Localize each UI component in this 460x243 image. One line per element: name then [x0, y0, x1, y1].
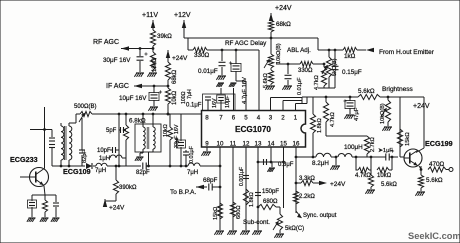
svg-text:10kΩ(B): 10kΩ(B) — [276, 43, 282, 64]
svg-text:500Ω(B): 500Ω(B) — [74, 104, 97, 110]
svg-text:ECG199: ECG199 — [425, 139, 453, 148]
svg-text:68pF: 68pF — [203, 177, 218, 184]
svg-text:IF AGC: IF AGC — [106, 83, 129, 90]
svg-text:7μH: 7μH — [95, 168, 106, 174]
svg-text:4: 4 — [257, 115, 261, 122]
svg-text:30μF 16V: 30μF 16V — [103, 57, 131, 64]
svg-text:2.2kΩ: 2.2kΩ — [299, 194, 315, 200]
svg-text:+24V: +24V — [172, 55, 188, 62]
svg-text:1: 1 — [294, 115, 298, 122]
svg-text:330Ω: 330Ω — [298, 68, 313, 74]
svg-text:To B.P.A.: To B.P.A. — [170, 189, 196, 196]
svg-text:9: 9 — [205, 141, 209, 148]
svg-text:3: 3 — [269, 115, 273, 122]
svg-text:+11V: +11V — [142, 12, 158, 19]
svg-text:SeekIC.com: SeekIC.com — [408, 231, 460, 241]
svg-text:100μH: 100μH — [344, 144, 363, 151]
svg-text:+24V: +24V — [330, 181, 346, 188]
svg-text:470Ω: 470Ω — [429, 161, 445, 168]
svg-text:1μH: 1μH — [99, 156, 110, 162]
svg-text:7μH: 7μH — [187, 170, 198, 176]
svg-text:330Ω: 330Ω — [194, 52, 210, 59]
svg-text:82pF: 82pF — [136, 170, 150, 176]
svg-text:5.6kΩ: 5.6kΩ — [426, 177, 443, 184]
svg-text:8: 8 — [205, 115, 209, 122]
svg-text:+24V: +24V — [413, 103, 430, 110]
svg-text:2: 2 — [281, 115, 285, 122]
svg-text:390kΩ: 390kΩ — [119, 185, 137, 191]
svg-text:15kΩ: 15kΩ — [405, 132, 411, 146]
svg-text:5pF: 5pF — [106, 128, 117, 134]
svg-text:11: 11 — [230, 141, 237, 148]
svg-text:150pF: 150pF — [262, 189, 279, 195]
svg-text:Sub-cont.: Sub-cont. — [243, 219, 270, 226]
svg-text:Brightness: Brightness — [382, 86, 413, 93]
svg-text:7μH: 7μH — [187, 89, 193, 99]
svg-text:100Ω: 100Ω — [181, 91, 187, 104]
svg-text:4.7kΩ: 4.7kΩ — [330, 112, 336, 127]
svg-text:10kΩ: 10kΩ — [377, 173, 392, 179]
svg-text:33μF 16V: 33μF 16V — [174, 124, 180, 148]
svg-text:1.8kΩ: 1.8kΩ — [317, 118, 323, 133]
svg-text:10pF: 10pF — [97, 148, 111, 154]
svg-text:0.001μF: 0.001μF — [239, 167, 245, 186]
svg-text:ECG109: ECG109 — [63, 167, 91, 176]
svg-text:+24V: +24V — [275, 5, 292, 12]
svg-text:0.01μF: 0.01μF — [297, 77, 303, 95]
svg-text:5kΩ(C): 5kΩ(C) — [285, 226, 304, 232]
svg-text:1.8kΩ: 1.8kΩ — [249, 192, 255, 207]
svg-text:68kΩ: 68kΩ — [276, 21, 291, 28]
svg-text:4.7kΩ: 4.7kΩ — [355, 173, 371, 179]
svg-text:RF AGC: RF AGC — [93, 39, 119, 46]
svg-text:ECG233: ECG233 — [10, 155, 38, 164]
svg-text:10kΩ: 10kΩ — [172, 90, 178, 105]
svg-text:8.2μH: 8.2μH — [312, 160, 329, 167]
svg-text:680Ω: 680Ω — [263, 199, 278, 205]
svg-text:6: 6 — [232, 115, 236, 122]
svg-text:0.01μF: 0.01μF — [198, 68, 218, 75]
svg-text:RF AGC Delay: RF AGC Delay — [225, 40, 267, 47]
svg-text:82pF: 82pF — [82, 150, 88, 163]
svg-text:10: 10 — [217, 141, 224, 148]
svg-text:0.1μF: 0.1μF — [186, 103, 202, 109]
svg-text:Sync. output: Sync. output — [303, 213, 337, 219]
svg-text:3.3kΩ: 3.3kΩ — [299, 176, 315, 182]
svg-text:680Ω: 680Ω — [236, 205, 242, 219]
svg-text:14: 14 — [268, 141, 275, 148]
svg-text:15: 15 — [280, 141, 287, 148]
svg-text:13: 13 — [255, 141, 262, 148]
svg-text:10kΩ(B): 10kΩ(B) — [380, 103, 386, 124]
svg-text:1kΩ: 1kΩ — [344, 53, 356, 60]
svg-text:12: 12 — [243, 141, 250, 148]
svg-text:39kΩ: 39kΩ — [157, 33, 172, 40]
svg-text:68kΩ: 68kΩ — [172, 69, 178, 84]
svg-text:15kΩ: 15kΩ — [213, 207, 219, 220]
svg-text:ECG1070: ECG1070 — [235, 125, 271, 134]
svg-text:+24V: +24V — [109, 205, 125, 212]
svg-text:16: 16 — [293, 141, 300, 148]
svg-text:10kΩ: 10kΩ — [163, 124, 169, 137]
svg-text:5.6kΩ: 5.6kΩ — [358, 88, 375, 95]
svg-text:From H.out Emitter: From H.out Emitter — [379, 49, 435, 56]
svg-text:7: 7 — [219, 115, 223, 122]
svg-text:18kΩ: 18kΩ — [152, 57, 158, 72]
svg-text:5: 5 — [244, 115, 248, 122]
svg-text:10μF 16V: 10μF 16V — [119, 95, 147, 102]
svg-text:47μF: 47μF — [354, 107, 360, 121]
svg-text:ABL Adj.: ABL Adj. — [287, 47, 311, 54]
svg-text:0.3μF: 0.3μF — [278, 162, 294, 168]
svg-text:0.01μF: 0.01μF — [189, 145, 195, 163]
svg-text:2.7kΩ: 2.7kΩ — [370, 137, 376, 152]
svg-text:+12V: +12V — [174, 12, 191, 19]
svg-text:5.6kΩ: 5.6kΩ — [381, 182, 397, 188]
svg-text:10μF: 10μF — [225, 95, 231, 108]
svg-text:0.15μF: 0.15μF — [342, 69, 362, 76]
